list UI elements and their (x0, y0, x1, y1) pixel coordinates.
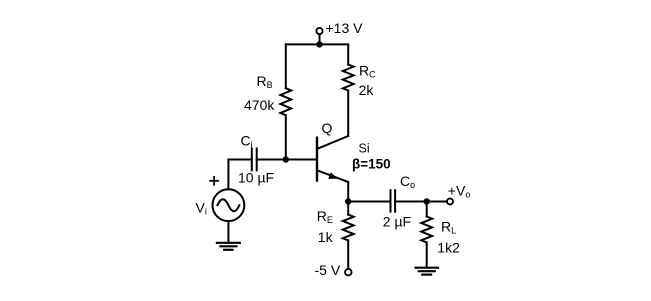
wire emitter to RE (347, 202, 349, 215)
terminal +Vo (447, 199, 453, 205)
svg-text:Si: Si (359, 142, 370, 156)
wire RB bottom (285, 115, 287, 159)
terminal -5V (345, 269, 352, 276)
transistor Q collector lead (317, 136, 348, 149)
ground Vi (217, 243, 240, 250)
capacitor Co plate left (390, 190, 392, 212)
wire supply stub (319, 34, 321, 44)
wire RL bottom (426, 242, 428, 267)
wire RE bottom (347, 240, 349, 269)
wire Vi top (228, 160, 251, 190)
capacitor Ci plate left (251, 149, 253, 171)
svg-text:Q: Q (322, 120, 333, 136)
source Vi circle (213, 189, 245, 221)
svg-text:β=150: β=150 (352, 157, 391, 172)
svg-text:1k: 1k (318, 229, 334, 245)
svg-text:-5 V: -5 V (315, 262, 341, 278)
resistor RE 1k (343, 215, 354, 241)
capacitor Co plate right (394, 190, 396, 212)
svg-text:1k2: 1k2 (437, 240, 460, 256)
wire RL top (426, 202, 428, 217)
resistor RL 1k2 (421, 217, 432, 243)
node emitter junction (345, 198, 351, 204)
label Vi plus (209, 176, 219, 186)
wire emitter down (347, 182, 349, 202)
ground RL (416, 268, 439, 275)
svg-text:+13 V: +13 V (326, 20, 364, 36)
svg-text:2 µF: 2 µF (383, 213, 411, 229)
terminal +13V (316, 28, 322, 34)
transistor Q emitter lead (317, 170, 348, 182)
wire RC bottom to collector (347, 91, 349, 137)
wire emitter to Co (348, 201, 390, 203)
resistor RC 2k (343, 65, 354, 91)
transistor Q emitter arrow (328, 172, 338, 179)
capacitor Ci plate right (256, 149, 258, 171)
svg-text:2k: 2k (359, 82, 375, 98)
resistor RB 470k (280, 88, 291, 115)
node output junction (424, 198, 430, 204)
node top junction (316, 41, 322, 47)
wire top rail (286, 43, 348, 45)
wire Vi bottom (227, 221, 229, 243)
wire RC top (347, 44, 349, 64)
source Vi sine (217, 199, 239, 211)
transistor Q base bar (316, 138, 318, 181)
svg-text:10 µF: 10 µF (238, 170, 274, 186)
node base junction (283, 156, 289, 162)
wire Co to output (395, 201, 447, 203)
wire RB top (285, 44, 287, 88)
svg-text:470k: 470k (244, 97, 275, 113)
wire base (257, 159, 317, 161)
